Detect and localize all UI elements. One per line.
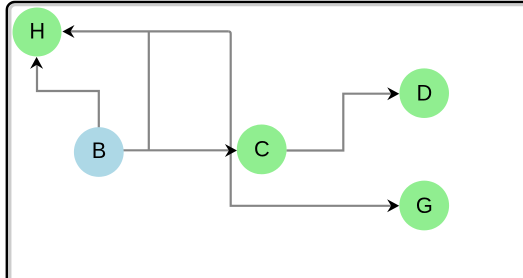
svg-text:D: D [417,81,433,106]
wire top rail corner down and right to G [228,31,394,205]
node G [399,181,449,231]
svg-text:G: G [416,193,433,218]
node D [399,68,449,118]
arrowhead into C left (right) [225,144,237,157]
wire B right to C left [124,149,233,151]
wire B top to H bottom [37,60,99,128]
svg-text:H: H [29,19,45,44]
arrowhead into H right (left) [62,25,74,38]
node B [74,127,124,177]
wire C right to D [287,94,394,151]
svg-text:C: C [254,136,270,161]
arrowhead into D left (right) [387,87,399,100]
svg-text:B: B [92,138,107,163]
wire top rail to H right [66,30,228,32]
arrowhead into H bottom (up) [30,57,43,69]
node H [13,8,62,57]
wire junction on B-C line up to top rail [148,31,150,150]
arrowhead into G left (right) [387,199,399,212]
node C [237,124,287,174]
